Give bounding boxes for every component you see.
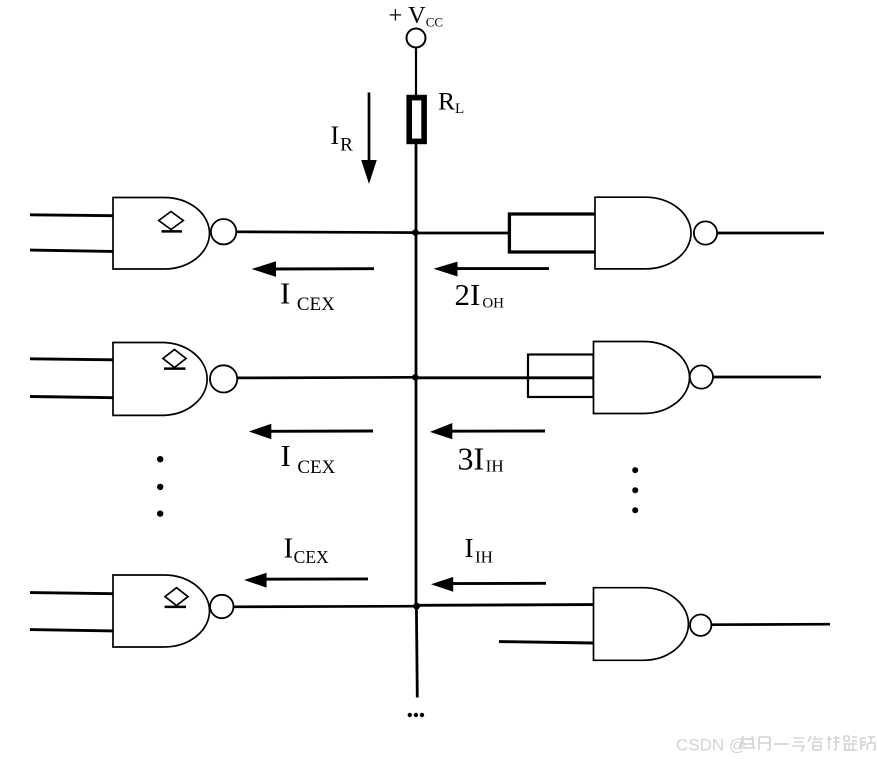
wire G3 input A: [30, 593, 113, 594]
wire bus below row 3: [415, 606, 419, 698]
wire U2 output: [717, 232, 824, 235]
watermark CSDN: [676, 736, 746, 755]
node junction row 1: [412, 229, 419, 236]
current arrow 2IOH: [434, 262, 550, 277]
watermark CJK text (approximated strokes): [741, 736, 875, 751]
current arrow ICEX row 2: [249, 424, 373, 439]
wire junction through box to U3: [416, 376, 594, 379]
current arrow ICEX row 3: [244, 573, 368, 588]
NAND gate U4: [594, 588, 712, 661]
node junction row 2: [412, 374, 419, 381]
wire U4 input B: [499, 642, 594, 643]
bottom ellipsis (bus continues): [408, 713, 425, 717]
wire G1 input B: [30, 250, 113, 251]
NAND gate U3: [594, 342, 714, 414]
open-collector NAND gate G2: [113, 343, 237, 416]
node junction row 3: [413, 603, 420, 610]
wire G2 output to bus: [237, 376, 417, 379]
open-collector NAND gate G1: [113, 198, 236, 270]
open-collector NAND gate G3: [113, 575, 234, 647]
input box U3: [528, 355, 594, 398]
wire G1 output to bus: [236, 230, 417, 234]
resistor RL: [409, 98, 424, 142]
ellipsis right column: [632, 467, 638, 513]
wire G2 input A: [30, 359, 113, 360]
wire junction to U4 input A: [417, 603, 594, 607]
wire G2 input B: [30, 397, 113, 398]
wire Vcc to RL: [415, 48, 417, 96]
wire pull-up bus vertical: [415, 141, 418, 606]
NAND gate U2: [595, 197, 717, 269]
wire G1 input A: [30, 213, 113, 217]
wire U3 output: [713, 376, 821, 379]
wire U4 output: [712, 623, 831, 626]
power terminal +Vcc: [407, 29, 426, 48]
wire G3 input B: [30, 630, 113, 631]
current arrow IR: [361, 93, 377, 185]
wire G3 output to bus: [234, 605, 418, 608]
current arrow IIH: [431, 577, 546, 592]
ellipsis left column: [157, 456, 163, 517]
current arrow ICEX row 1: [252, 261, 375, 277]
wire junction to input box row 1: [416, 232, 510, 235]
svg-text:CSDN @: CSDN @: [676, 736, 746, 755]
current arrow 3IIH: [430, 423, 545, 439]
input box U2 (tied inputs): [509, 214, 595, 252]
